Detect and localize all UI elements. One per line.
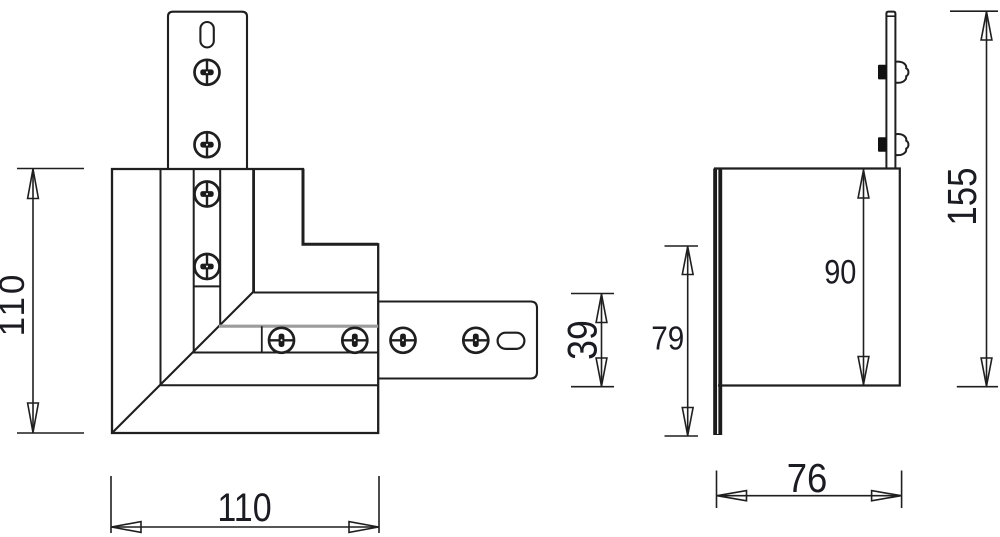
top mounting plate (front view): [168, 12, 247, 169]
inner vertical line x220 (channel right): [219, 169, 221, 326]
side view left plate (double line): [713, 169, 722, 436]
slot in arm: [498, 333, 525, 349]
svg-text:76: 76: [787, 456, 828, 501]
horizontal inner line y385.3: [161, 384, 379, 386]
screw S8 arm right: [463, 328, 488, 353]
screw S2 top plate lower: [195, 132, 220, 157]
L-body outline (front view): [112, 169, 378, 433]
dimension 155: extension lines: [950, 11, 998, 387]
channel cap: [194, 285, 221, 287]
slot in top plate: [200, 22, 213, 47]
horizontal inner line y352.5: [193, 352, 379, 354]
side view body: [714, 169, 900, 386]
svg-text:110: 110: [217, 484, 271, 529]
screw S4 channel lower: [195, 254, 220, 279]
screw S1 top plate upper: [195, 60, 220, 85]
svg-text:90: 90: [824, 252, 856, 291]
dimension line: [111, 526, 379, 528]
arrowheads: [981, 12, 992, 40]
dimension 76: extension lines: [717, 471, 902, 509]
arrowheads: [596, 294, 607, 323]
arrowheads: [858, 170, 869, 198]
dimension 110 left: extension lines: [17, 169, 84, 434]
svg-text:110: 110: [0, 272, 32, 337]
right arm plate: [378, 302, 537, 379]
inner vertical line x193.5 (channel left): [193, 169, 195, 352]
dimension 110 left: dimension line: [32, 169, 34, 434]
miter diagonal: [112, 292, 254, 434]
dimension 39: extension lines: [571, 294, 614, 387]
side view right plate: [886, 12, 895, 170]
gray channel line y326: [219, 325, 378, 328]
screw S5 body channel left: [269, 328, 294, 353]
side screw B1 square nut: [878, 65, 887, 80]
screw S6 body channel right: [342, 328, 367, 353]
svg-text:39: 39: [560, 320, 606, 360]
dimension line: [601, 294, 603, 387]
side screw B1 dome head: [896, 62, 909, 83]
arrowheads: [717, 491, 747, 501]
horizontal inner line y292.5: [254, 292, 379, 294]
svg-text:155: 155: [941, 167, 986, 225]
dimension 90: dimension line: [858, 170, 869, 386]
side screw B2 square nut: [878, 137, 887, 152]
inner vertical line x160: [160, 169, 162, 385]
inner vertical line x253.5 (thick): [252, 169, 255, 292]
body step thick edges: [303, 169, 378, 244]
dimension 79: extension lines: [665, 246, 699, 436]
dimension line: [986, 11, 988, 387]
side screw B2 dome head: [896, 134, 909, 155]
arrowheads: [682, 247, 693, 275]
channel cap vertical x262: [261, 326, 263, 352]
dimension line: [687, 246, 689, 436]
screw S3 channel upper: [195, 182, 220, 207]
arrowheads: [28, 169, 39, 199]
svg-text:79: 79: [651, 320, 684, 357]
dimension line: [717, 495, 902, 497]
arrowheads: [112, 522, 142, 533]
dimension 110 bottom: extension lines: [111, 476, 379, 533]
screw S7 arm left: [391, 328, 416, 353]
